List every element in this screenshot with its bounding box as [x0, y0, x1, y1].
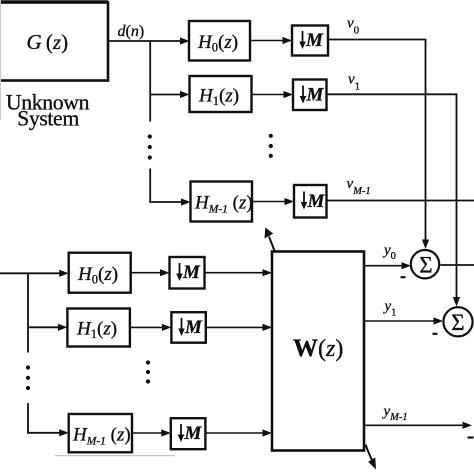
downsampler M bottom row1 [170, 257, 205, 289]
svg-text:M: M [307, 191, 326, 212]
ellipsis bottom branch [26, 365, 30, 390]
ellipsis top between H and M columns [269, 134, 273, 158]
wire d(n) from G(z) to H0(z) [108, 37, 190, 44]
wire sum1 output to right edge [440, 264, 474, 266]
adaptation arrow bottom-right of W [366, 445, 377, 470]
svg-text:M: M [184, 317, 203, 338]
scan artifact left edge [0, 0, 1, 120]
block W(z) adaptive filter [272, 252, 364, 451]
scan artifact bottom edge [55, 455, 175, 456]
minus sign at sum2 [433, 333, 438, 335]
wire branch vertical top bank [149, 41, 151, 202]
downsampler M top row3 [294, 185, 327, 218]
label Unknown System [6, 90, 90, 130]
wire H0 to downsampler top row1 [250, 37, 292, 44]
summer sigma 2 [443, 307, 472, 336]
wire downsampler to W row2 [206, 324, 272, 331]
wire downsampler to W row3 [205, 429, 272, 436]
svg-text:M: M [305, 30, 324, 51]
wire HM-1 to downsampler bottom row3 [132, 429, 171, 436]
filter HM-1(z) top [191, 182, 253, 222]
wire y1 from W to sum2 [364, 317, 443, 324]
adaptation arrow top-left of W [265, 228, 275, 251]
ellipsis top branch [148, 134, 152, 159]
wire v0 with corner down to sum 1 [328, 40, 429, 250]
wire to HM-1(z) top [149, 198, 190, 205]
wire downsampler to W row1 [205, 269, 273, 276]
filter H0(z) top [189, 21, 250, 61]
svg-text:G (z): G (z) [27, 30, 69, 54]
block G(z) unknown system [0, 2, 108, 81]
filter HM-1(z) bottom [69, 414, 132, 452]
wire H1 to downsampler top row2 [252, 91, 294, 98]
svg-text:H0(z): H0(z) [77, 264, 118, 287]
wire v1 with corner down to sum 2 [327, 94, 461, 306]
ellipsis bottom between H and M columns [146, 360, 150, 383]
svg-text:W(z): W(z) [293, 335, 343, 362]
wire y0 from W to sum1 [364, 262, 411, 269]
wire HM-1 to downsampler top row3 [252, 198, 294, 205]
filter H0(z) bottom [69, 253, 131, 293]
wire to H1(z) bottom [28, 324, 67, 331]
downsampler M top row1 [292, 26, 328, 56]
wire branch vertical bottom bank [27, 273, 29, 433]
wire H0 to downsampler bottom row1 [131, 269, 170, 276]
summer sigma 1 [411, 250, 439, 278]
svg-text:M: M [184, 423, 203, 444]
wire vM-1 to right edge [327, 200, 474, 202]
svg-text:M: M [182, 262, 201, 283]
downsampler M bottom row3 [171, 418, 206, 449]
svg-text:H1(z): H1(z) [76, 319, 117, 342]
svg-text:d(n): d(n) [118, 23, 145, 40]
filter H1(z) top [190, 76, 252, 112]
wire to HM-1(z) bottom [27, 429, 69, 436]
wire to H1(z) top [150, 91, 189, 98]
svg-text:M: M [306, 85, 325, 106]
wire H1 to downsampler bottom row2 [130, 324, 171, 331]
wire yM-1 from W to right edge [364, 422, 472, 429]
downsampler M top row2 [293, 80, 327, 111]
filter H1(z) bottom [67, 309, 129, 347]
wire input to bottom bank from left edge [0, 270, 69, 277]
svg-text:Σ: Σ [451, 310, 464, 335]
minus sign near right edge row3 [468, 436, 474, 438]
downsampler M bottom row2 [171, 312, 205, 343]
svg-text:H1(z): H1(z) [198, 86, 239, 109]
svg-text:H0(z): H0(z) [197, 32, 238, 55]
svg-text:System: System [17, 106, 79, 130]
svg-text:Σ: Σ [419, 253, 432, 278]
minus sign at sum1 [401, 276, 406, 278]
